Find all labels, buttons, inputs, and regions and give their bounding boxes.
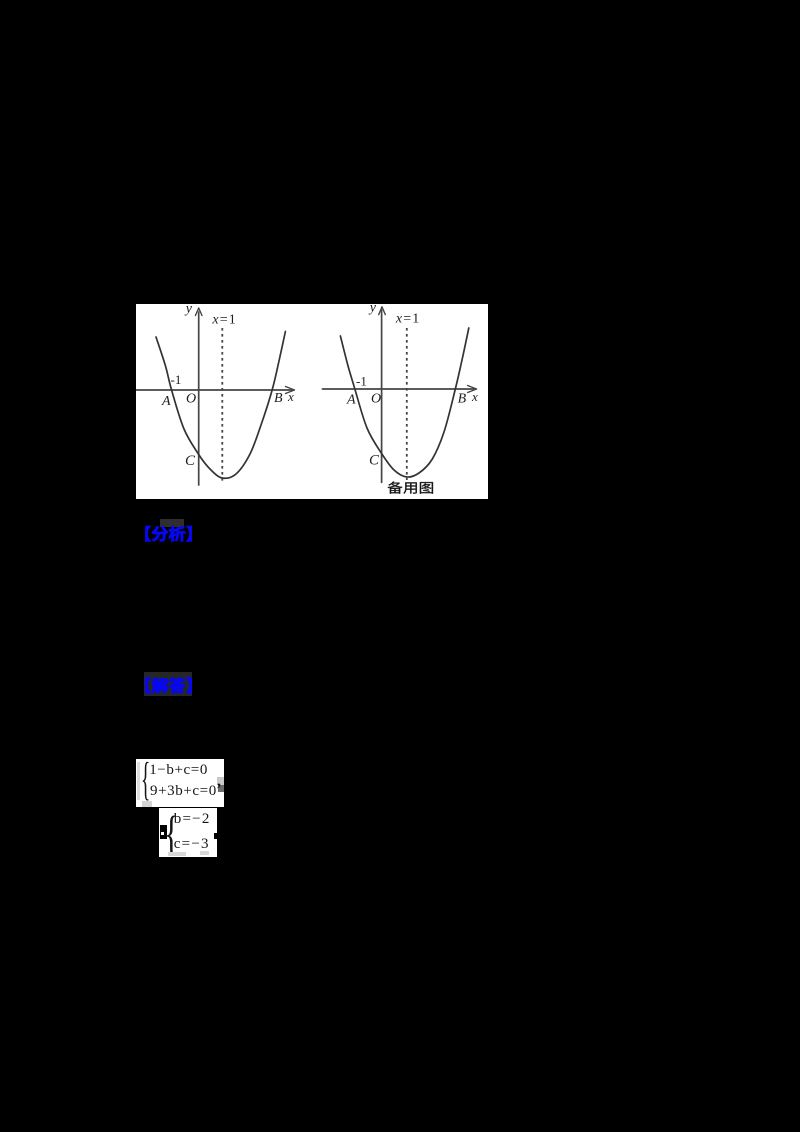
svg-text:x: x xyxy=(287,389,294,404)
svg-text:O: O xyxy=(186,392,196,407)
left light strip xyxy=(137,762,140,800)
left figure dashed symmetry line x=1 xyxy=(221,328,223,483)
left figure parabola xyxy=(156,332,285,479)
left figure y-axis xyxy=(198,312,200,485)
line 1 xyxy=(174,811,211,828)
svg-text:A: A xyxy=(161,394,171,409)
equation system box 2: b=-2 ; c=-3 xyxy=(159,808,217,857)
svg-text:-1: -1 xyxy=(171,372,182,387)
graph panel (two parabola figures) xyxy=(136,304,488,499)
svg-text:B: B xyxy=(274,391,283,406)
right figure x-axis xyxy=(322,388,474,390)
caption 备用图 xyxy=(388,481,403,493)
big brace xyxy=(141,752,150,806)
svg-text:C: C xyxy=(369,452,380,468)
line 1 xyxy=(149,762,208,779)
svg-text:x=1: x=1 xyxy=(395,311,420,326)
svg-text:y: y xyxy=(368,304,377,316)
svg-text:-1: -1 xyxy=(356,374,367,389)
line 2 xyxy=(150,783,217,800)
svg-text:A: A xyxy=(346,393,356,408)
right figure parabola xyxy=(340,328,468,477)
svg-text:x=1: x=1 xyxy=(211,312,236,327)
svg-text:B: B xyxy=(458,392,467,407)
right small black mark xyxy=(214,833,217,839)
blue heading 【解答】 xyxy=(133,671,197,699)
svg-text:O: O xyxy=(371,392,381,407)
svg-text:x: x xyxy=(471,389,478,404)
right figure y-axis xyxy=(381,310,383,482)
svg-text:y: y xyxy=(184,304,193,316)
svg-text:C: C xyxy=(185,453,196,469)
line 2 xyxy=(174,836,210,853)
equation system box 1: 1-b+c=0 ; 9+3b+c=0 xyxy=(136,759,224,807)
right figure dashed symmetry line x=1 xyxy=(406,328,408,480)
left figure x-axis xyxy=(136,389,292,391)
blue heading 【分析】 xyxy=(133,520,197,548)
big brace xyxy=(164,805,179,861)
gray smudge above label 1 xyxy=(160,519,184,527)
gray patch right xyxy=(217,777,224,785)
bottom-left light patch xyxy=(142,801,152,807)
comma xyxy=(217,773,221,791)
black square (clipped glyph) xyxy=(160,825,167,840)
gray box behind label 2 xyxy=(144,672,193,697)
bottom light patches xyxy=(168,852,186,856)
